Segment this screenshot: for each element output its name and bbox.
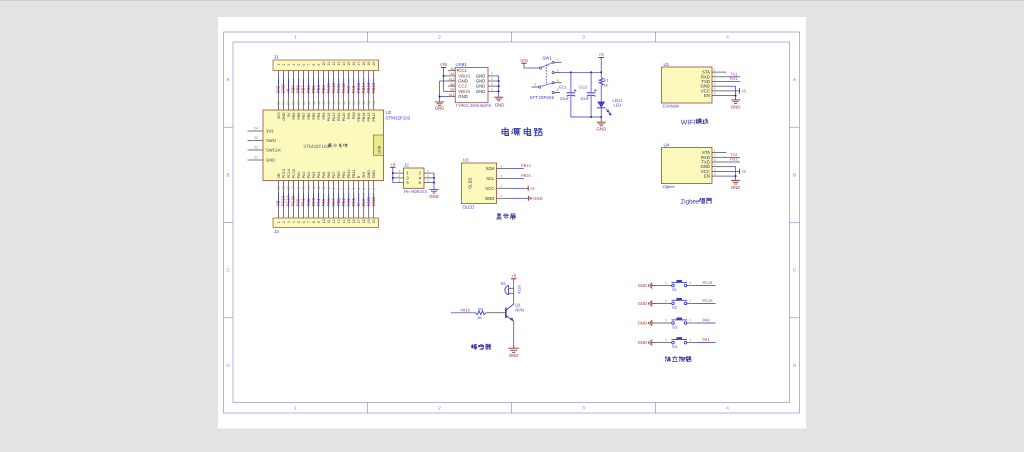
- wire ground to S3 pin1: [656, 318, 672, 323]
- wire U4 TXD net RX2: [726, 157, 740, 162]
- switch SW1 KFT DIP4X8: [530, 56, 562, 100]
- svg-text:4: 4: [357, 188, 361, 190]
- wire VIN to SW1 pin2: [524, 66, 539, 68]
- svg-text:21: 21: [254, 156, 258, 160]
- svg-text:5: 5: [557, 68, 559, 72]
- wire U2 to J3 pin 7 (net TX2): [306, 181, 311, 219]
- wire S3 pin2 to net PA0: [687, 317, 716, 323]
- svg-text:EC1: EC1: [559, 85, 568, 90]
- svg-text:2: 2: [367, 188, 371, 190]
- svg-text:PB12: PB12: [372, 113, 376, 122]
- svg-text:13: 13: [337, 62, 341, 66]
- svg-text:22: 22: [254, 146, 258, 150]
- svg-text:15: 15: [347, 62, 351, 66]
- svg-text:PC14: PC14: [287, 169, 291, 178]
- wire J1 pin 9 to U2 (net PB4): [316, 71, 321, 111]
- svg-text:+5: +5: [741, 169, 746, 174]
- svg-text:PA8: PA8: [352, 113, 356, 120]
- capacitor EC2 10uF: [579, 72, 596, 117]
- svg-text:17: 17: [292, 186, 296, 190]
- svg-text:11: 11: [327, 220, 331, 224]
- svg-text:14: 14: [342, 62, 346, 66]
- svg-text:4: 4: [292, 221, 296, 223]
- svg-text:GND: GND: [372, 170, 376, 179]
- wire J1 pin 18 to U2 (net PB14): [361, 71, 366, 111]
- svg-text:1: 1: [665, 338, 667, 342]
- caption under U1: [681, 119, 708, 127]
- svg-text:J1: J1: [274, 55, 279, 60]
- svg-text:6: 6: [427, 179, 429, 183]
- svg-text:11: 11: [327, 62, 331, 66]
- svg-text:GND: GND: [476, 89, 486, 94]
- display U3 OLED: [462, 158, 497, 210]
- svg-text:GND: GND: [435, 106, 445, 111]
- svg-text:6: 6: [714, 92, 716, 96]
- caption 蜂鸣器 (buzzer): [472, 344, 491, 350]
- svg-text:EC2: EC2: [579, 85, 588, 90]
- svg-text:3V3: 3V3: [277, 113, 281, 120]
- wire R4 to base: [486, 312, 506, 314]
- svg-text:1: 1: [294, 405, 297, 410]
- svg-text:GND: GND: [596, 127, 606, 132]
- svg-text:VB: VB: [277, 173, 281, 178]
- svg-text:1: 1: [372, 188, 376, 190]
- wire J1 pin 16 to U2 (net PA8): [351, 71, 356, 111]
- resistor R1 1k: [599, 72, 609, 101]
- svg-text:2: 2: [714, 153, 716, 157]
- svg-text:2: 2: [690, 318, 692, 322]
- ground (button S4): [638, 339, 656, 345]
- svg-text:GND: GND: [533, 196, 542, 201]
- svg-text:GND: GND: [731, 104, 741, 109]
- svg-text:PA0: PA0: [703, 317, 711, 322]
- svg-text:VCC: VCC: [485, 186, 494, 191]
- wire U2 to J3 pin 14 (net PB1): [341, 181, 346, 219]
- svg-text:RX2: RX2: [730, 157, 739, 162]
- wire J1 pin 5 to U2 (net PB8): [296, 71, 301, 111]
- svg-text:PB11: PB11: [352, 170, 356, 179]
- svg-text:39: 39: [297, 101, 301, 105]
- power port VIN: [440, 62, 448, 70]
- U2 left pin 23 (SWO): [248, 136, 264, 140]
- svg-text:8: 8: [312, 64, 316, 66]
- svg-text:R: R: [357, 175, 361, 178]
- svg-text:NPN: NPN: [515, 307, 524, 312]
- svg-text:S2: S2: [672, 305, 678, 310]
- svg-text:OLED: OLED: [468, 178, 473, 189]
- svg-text:PA15: PA15: [461, 307, 471, 312]
- svg-text:1k: 1k: [604, 82, 608, 87]
- svg-text:1: 1: [294, 35, 297, 40]
- svg-text:A5: A5: [450, 67, 454, 71]
- ground (U4): [731, 180, 741, 190]
- svg-text:ESP8266: ESP8266: [663, 104, 681, 109]
- button S1: [672, 280, 688, 292]
- ground (OLED GND): [512, 196, 543, 201]
- svg-text:35: 35: [277, 101, 281, 105]
- sheet border frame: [224, 32, 800, 413]
- ground (U1): [731, 100, 741, 110]
- svg-text:GND: GND: [429, 194, 439, 199]
- svg-text:B12: B12: [449, 93, 455, 97]
- svg-text:PA3: PA3: [312, 172, 316, 179]
- svg-text:16: 16: [297, 186, 301, 190]
- svg-text:4: 4: [726, 405, 729, 410]
- wire J1 pin 1 to U2 (net 3V3): [276, 71, 281, 111]
- wire J1 pin 19 to U2 (net PB13): [366, 71, 371, 111]
- svg-text:7: 7: [307, 64, 311, 66]
- header J2 Pin HDR2X3: [396, 163, 431, 195]
- svg-text:+5: +5: [599, 52, 605, 57]
- svg-text:3V3: 3V3: [362, 172, 366, 179]
- svg-text:17: 17: [357, 62, 361, 66]
- svg-text:38: 38: [292, 101, 296, 105]
- svg-text:3: 3: [491, 77, 493, 81]
- connector J3: [273, 218, 379, 234]
- svg-text:2: 2: [501, 184, 503, 188]
- svg-text:U3: U3: [463, 158, 469, 163]
- svg-text:47: 47: [337, 101, 341, 105]
- svg-text:WIFI: WIFI: [681, 119, 695, 126]
- svg-text:3: 3: [362, 188, 366, 190]
- svg-text:23: 23: [254, 136, 258, 140]
- svg-text:EN: EN: [704, 174, 710, 179]
- svg-text:10: 10: [327, 186, 331, 190]
- svg-text:20: 20: [277, 186, 281, 190]
- svg-text:7: 7: [342, 188, 346, 190]
- svg-text:10: 10: [322, 219, 326, 223]
- svg-text:SDA: SDA: [486, 166, 495, 171]
- wire J1 pin 12 to U2 (net PA12): [331, 71, 336, 111]
- svg-text:SWCLK: SWCLK: [266, 148, 281, 153]
- svg-text:4: 4: [714, 82, 716, 86]
- junction bottom LED: [600, 116, 602, 118]
- wire J1 pin 7 to U2 (net PB6): [306, 71, 311, 111]
- svg-text:PB15: PB15: [357, 113, 361, 122]
- svg-text:13: 13: [337, 219, 341, 223]
- svg-text:GND: GND: [638, 283, 647, 288]
- svg-text:PB9: PB9: [292, 113, 296, 120]
- svg-text:4: 4: [714, 163, 716, 167]
- svg-text:1: 1: [277, 221, 281, 223]
- svg-text:3: 3: [582, 405, 585, 410]
- svg-text:PB5: PB5: [312, 113, 316, 120]
- junctions USB right: [498, 80, 500, 82]
- junction J2 pin3: [392, 177, 394, 179]
- svg-text:PA4: PA4: [317, 172, 321, 179]
- U3 pin 1 stub: [497, 194, 513, 198]
- wire U2 to J3 pin 11 (net PA6): [326, 181, 331, 219]
- power +5 (J2): [390, 162, 396, 170]
- svg-text:GND: GND: [495, 102, 505, 107]
- capacitor EC1 22uF: [559, 72, 576, 117]
- U2 left pin 21 (GND): [248, 156, 264, 160]
- svg-text:5: 5: [714, 167, 716, 171]
- svg-text:1: 1: [491, 87, 493, 91]
- svg-text:1: 1: [501, 194, 503, 198]
- svg-text:GND: GND: [282, 112, 286, 121]
- svg-text:3: 3: [287, 221, 291, 223]
- wire ground to S4 pin1: [656, 338, 672, 343]
- USB sub-part on U2: [374, 135, 384, 155]
- svg-text:PA15: PA15: [327, 113, 331, 122]
- ground (power rail): [596, 117, 606, 132]
- svg-text:PA7: PA7: [332, 172, 336, 179]
- svg-text:3V3: 3V3: [266, 129, 274, 134]
- svg-text:20: 20: [372, 62, 376, 66]
- wire U1 RXD net TX1: [726, 72, 740, 77]
- MCU U2 STM32F103: [263, 110, 411, 181]
- svg-text:PA9: PA9: [347, 113, 351, 120]
- svg-text:1K: 1K: [477, 315, 482, 320]
- svg-text:22uF: 22uF: [560, 96, 570, 101]
- svg-text:1: 1: [714, 68, 716, 72]
- junction U1 EN: [735, 95, 737, 97]
- svg-text:J3: J3: [274, 229, 279, 234]
- svg-text:1: 1: [557, 58, 559, 62]
- svg-text:2: 2: [438, 405, 441, 410]
- svg-text:R4: R4: [478, 306, 484, 311]
- svg-text:42: 42: [312, 101, 316, 105]
- svg-text:46: 46: [332, 101, 336, 105]
- svg-text:19: 19: [367, 62, 371, 66]
- svg-text:54: 54: [372, 101, 376, 105]
- USB connector USB1: [448, 62, 496, 108]
- svg-text:PB6: PB6: [307, 113, 311, 120]
- wire U4 RXD net TX2: [726, 152, 740, 157]
- junction J2 pin4: [433, 177, 435, 179]
- wire U3 SDA net PB14: [512, 163, 532, 169]
- svg-text:PB4: PB4: [317, 113, 321, 120]
- svg-text:Zigbee: Zigbee: [663, 184, 676, 189]
- svg-text:PA2: PA2: [307, 172, 311, 179]
- wire U2 to J3 pin 8 (net RX2): [311, 181, 316, 219]
- power port +5 (rail): [599, 52, 605, 60]
- svg-text:49: 49: [347, 101, 351, 105]
- svg-text:13: 13: [312, 186, 316, 190]
- svg-text:15: 15: [302, 186, 306, 190]
- wire U2 to J3 pin 17 (net R): [356, 181, 361, 219]
- wire U2 to J3 pin 3 (net PC14): [286, 181, 291, 219]
- transistor Q1 NPN: [506, 293, 524, 327]
- svg-text:44: 44: [322, 101, 326, 105]
- power port VIN (switch): [520, 58, 528, 66]
- svg-text:4: 4: [427, 174, 429, 178]
- U3 pin 3 stub: [497, 174, 513, 178]
- wire U2 to J3 pin 16 (net RX1): [351, 181, 356, 219]
- power +5 (buzzer): [511, 274, 517, 283]
- junction rail EC2: [590, 72, 592, 74]
- svg-text:3: 3: [582, 35, 585, 40]
- svg-text:PA12: PA12: [332, 113, 336, 122]
- svg-text:1: 1: [398, 169, 400, 173]
- wire base (net PA15) with resistor R4: [451, 307, 476, 312]
- svg-text:U1: U1: [664, 62, 670, 67]
- resistor R4 1K: [476, 306, 487, 319]
- wire J1 pin 17 to U2 (net PB15): [356, 71, 361, 111]
- svg-text:4: 4: [292, 64, 296, 66]
- wire U3 SCL net PB15: [512, 173, 532, 179]
- wire U2 to J3 pin 13 (net PB0): [336, 181, 341, 219]
- svg-text:Pin HDR2X3: Pin HDR2X3: [404, 189, 427, 194]
- svg-text:PA11: PA11: [337, 113, 341, 121]
- svg-text:6: 6: [302, 221, 306, 223]
- caption 独立按键 (independent buttons): [665, 356, 692, 361]
- zone labels: [227, 35, 797, 411]
- ground (buzzer): [508, 344, 519, 358]
- svg-text:PB1: PB1: [342, 171, 346, 178]
- connector J1: [273, 55, 379, 71]
- svg-text:RX1: RX1: [730, 76, 739, 81]
- U3 pin 2 stub: [497, 184, 513, 188]
- wire J1 pin 6 to U2 (net PB7): [301, 71, 306, 111]
- svg-text:5V: 5V: [287, 112, 291, 117]
- wire J1 pin 14 to U2 (net PA10): [341, 71, 346, 111]
- svg-text:9: 9: [317, 64, 321, 66]
- svg-text:SWO: SWO: [266, 138, 277, 143]
- power +5 (U1 VCC): [726, 88, 746, 93]
- svg-text:4: 4: [491, 72, 493, 76]
- svg-text:PC14: PC14: [703, 280, 714, 285]
- svg-text:GND: GND: [458, 94, 468, 99]
- svg-text:12: 12: [332, 219, 336, 223]
- wire bottom rail: [571, 116, 601, 118]
- svg-text:PC13: PC13: [282, 169, 286, 178]
- svg-text:SCL: SCL: [486, 176, 495, 181]
- svg-text:2: 2: [282, 221, 286, 223]
- caption 显示屏 (display): [496, 214, 515, 220]
- svg-text:PB13: PB13: [367, 113, 371, 122]
- svg-text:GND: GND: [509, 353, 519, 358]
- svg-text:2: 2: [547, 64, 549, 68]
- wire J1 pin 2 to U2 (net GND): [281, 71, 286, 111]
- U2 left pin 24 (3V3): [248, 127, 264, 131]
- ground (J2): [429, 189, 439, 198]
- svg-text:1: 1: [665, 318, 667, 322]
- svg-text:PB8: PB8: [297, 113, 301, 120]
- svg-text:PB14: PB14: [521, 163, 532, 168]
- junction J2 pin1: [392, 172, 394, 174]
- svg-text:4: 4: [726, 35, 729, 40]
- svg-text:18: 18: [362, 219, 366, 223]
- wire J1 pin 13 to U2 (net PA11): [336, 71, 341, 111]
- ground (button S3): [638, 320, 656, 326]
- svg-text:12: 12: [317, 186, 321, 190]
- wire emitter to ground: [513, 327, 515, 344]
- svg-text:USB1: USB1: [456, 62, 468, 67]
- svg-text:6: 6: [714, 172, 716, 176]
- svg-text:VIN: VIN: [520, 58, 528, 63]
- svg-text:5: 5: [297, 64, 301, 66]
- wire U2 to J3 pin 19 (net GND): [366, 181, 371, 219]
- svg-text:45: 45: [327, 101, 331, 105]
- wire U4 GND/EN to ground: [726, 167, 735, 180]
- svg-text:3: 3: [714, 158, 716, 162]
- wire S1 pin2 to net PC14: [687, 280, 716, 286]
- ground (USB left): [435, 102, 445, 111]
- svg-text:1: 1: [714, 149, 716, 153]
- svg-text:PB14: PB14: [362, 113, 366, 122]
- svg-text:37: 37: [287, 101, 291, 105]
- svg-text:S3: S3: [672, 325, 678, 330]
- svg-text:4: 4: [557, 79, 559, 83]
- chip title 最小系统: [328, 144, 347, 148]
- svg-text:PB7: PB7: [302, 113, 306, 120]
- svg-text:Zigbee: Zigbee: [681, 199, 700, 206]
- svg-text:8: 8: [312, 221, 316, 223]
- svg-text:19: 19: [282, 186, 286, 190]
- U2 left pin 22 (SWCLK): [248, 146, 264, 150]
- wire U2 to J3 pin 2 (net PC13): [281, 181, 286, 219]
- svg-text:STM32F103: STM32F103: [386, 116, 411, 121]
- buzzer B1: [501, 281, 522, 295]
- svg-text:2: 2: [690, 338, 692, 342]
- wire U2 to J3 pin 18 (net 3V3): [361, 181, 366, 219]
- svg-text:GND: GND: [731, 185, 741, 190]
- svg-text:4228: 4228: [518, 285, 522, 293]
- wire J1 pin 20 to U2 (net PB12): [371, 71, 376, 111]
- svg-text:3: 3: [398, 174, 400, 178]
- svg-text:GND: GND: [638, 340, 647, 345]
- svg-text:B: B: [793, 173, 796, 178]
- wire J1 pin 4 to U2 (net PB9): [291, 71, 296, 111]
- power +5 (OLED VCC): [512, 186, 535, 191]
- wire ground to S2 pin1: [656, 299, 672, 304]
- svg-text:SW1: SW1: [542, 56, 552, 61]
- svg-text:U2: U2: [386, 110, 392, 115]
- wire S4 pin2 to net PA1: [687, 337, 716, 343]
- svg-text:1: 1: [277, 64, 281, 66]
- svg-text:1: 1: [665, 299, 667, 303]
- wire GND pins to ground (left): [440, 81, 449, 102]
- svg-text:+5: +5: [511, 274, 517, 279]
- svg-text:S1: S1: [672, 287, 678, 292]
- svg-text:2: 2: [438, 35, 441, 40]
- svg-text:PB3: PB3: [322, 113, 326, 120]
- svg-text:B: B: [227, 173, 230, 178]
- svg-text:2: 2: [282, 64, 286, 66]
- button S2: [672, 298, 688, 310]
- svg-text:PC15: PC15: [292, 169, 296, 178]
- svg-text:+5: +5: [530, 186, 535, 191]
- svg-text:8: 8: [337, 188, 341, 190]
- wire U2 to J3 pin 6 (net PA1): [301, 181, 306, 219]
- svg-text:J2: J2: [404, 163, 409, 168]
- svg-text:PA1: PA1: [703, 337, 711, 342]
- svg-text:10uF: 10uF: [580, 96, 590, 101]
- wire U2 to J3 pin 9 (net PA4): [316, 181, 321, 219]
- junction U4 EN: [735, 175, 737, 177]
- wire U1 TXD net RX1: [726, 76, 740, 81]
- junction rail R1: [600, 72, 602, 74]
- svg-text:36: 36: [282, 101, 286, 105]
- svg-text:U4: U4: [664, 143, 670, 148]
- junction rail EC1: [570, 72, 572, 74]
- svg-text:3: 3: [501, 174, 503, 178]
- svg-text:11: 11: [322, 186, 326, 190]
- svg-text:5: 5: [398, 179, 400, 183]
- wire +5 to buzzer: [513, 282, 515, 288]
- module U4 Zigbee: [662, 143, 727, 190]
- svg-text:4: 4: [501, 164, 503, 168]
- svg-text:PA6: PA6: [327, 172, 331, 179]
- svg-text:GND: GND: [485, 196, 495, 201]
- wire U2 to J3 pin 15 (net TX1): [346, 181, 351, 219]
- svg-text:6: 6: [347, 188, 351, 190]
- wire J1 pin 11 to U2 (net PA15): [326, 71, 331, 111]
- junction GND left: [439, 96, 441, 98]
- junction VIN/VBUS: [443, 75, 445, 77]
